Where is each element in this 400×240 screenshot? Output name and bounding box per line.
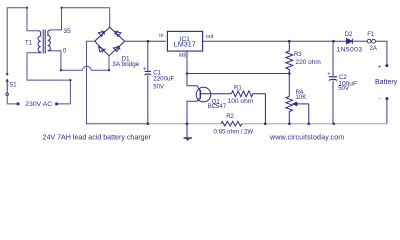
node battery minus [385, 97, 388, 100]
svg-text:0: 0 [63, 48, 67, 54]
svg-text:-: - [379, 97, 381, 103]
diode D1a upper-left [98, 31, 105, 37]
svg-text:+: + [327, 71, 330, 77]
svg-text:3A bridge: 3A bridge [112, 61, 139, 68]
diode D1b upper-right [114, 31, 121, 37]
resistor R3 220 ohm [286, 41, 293, 73]
wire primary top lead [7, 8, 38, 75]
wire plug to primary bottom [27, 53, 70, 104]
svg-text:24V 7AH lead acid battery char: 24V 7AH lead acid battery charger [43, 133, 152, 141]
node 0-junction [60, 69, 62, 71]
svg-text:R2: R2 [226, 114, 234, 120]
capacitor C2 [332, 41, 334, 76]
ground symbol [184, 124, 192, 141]
wire adj to R3/R4 junction [187, 51, 289, 74]
node bottom vertex junction [108, 69, 110, 71]
wire adj down to Q1 collector [187, 74, 198, 86]
R4 wiper arrow [293, 102, 309, 124]
svg-text:220 ohm: 220 ohm [296, 59, 321, 66]
plug pin right [55, 103, 58, 106]
wire fuse to battery plus [376, 41, 387, 65]
svg-text:10K: 10K [296, 95, 307, 101]
node wiper bottom [308, 122, 311, 125]
op-amp IC1 LM317 regulator box [166, 30, 203, 51]
svg-text:+: + [378, 64, 382, 70]
node corner [60, 7, 62, 9]
svg-text:BC547: BC547 [208, 104, 227, 110]
transformer T1 [38, 30, 51, 54]
wire secondary bottom lead (0 tap) [52, 51, 61, 70]
resistor R1 100 ohm [231, 91, 265, 124]
node battery plus [385, 64, 388, 67]
node C1 bottom [147, 122, 150, 125]
svg-text:1N5003: 1N5003 [337, 46, 363, 53]
node R3/R4 junction [288, 72, 291, 75]
node C2 top [332, 40, 335, 43]
node C2 bottom [332, 122, 335, 125]
node R1 bottom [264, 122, 267, 125]
svg-text:adj: adj [179, 52, 186, 58]
svg-text:50V: 50V [153, 84, 164, 90]
svg-text:2200uF: 2200uF [153, 75, 174, 82]
svg-text:F1: F1 [367, 32, 375, 38]
svg-text:www.circuitstoday.com: www.circuitstoday.com [269, 133, 344, 141]
transistor Q1 [196, 86, 231, 102]
node emitter/ground junction [186, 122, 189, 125]
svg-text:S1: S1 [9, 82, 17, 88]
resistor R2 0.85 ohm [221, 121, 242, 126]
node corner [69, 79, 71, 81]
svg-text:D2: D2 [345, 32, 353, 38]
svg-text:230V AC: 230V AC [25, 101, 52, 108]
node R4 bottom [288, 122, 291, 125]
switch S1 [6, 78, 9, 95]
wire 0 tap to bridge bottom vertex with hop [61, 56, 109, 70]
svg-text:50V: 50V [338, 86, 349, 92]
wire Q1 emitter to ground rail [187, 101, 197, 123]
svg-text:100 ohm: 100 ohm [228, 98, 254, 105]
node C1 top junction [147, 40, 150, 43]
wire battery minus to ground rail [386, 99, 388, 124]
node corner top-left [26, 7, 28, 9]
svg-text:LM317: LM317 [174, 40, 196, 49]
svg-text:Battery: Battery [375, 79, 398, 86]
wire S1 to plug [7, 96, 16, 104]
wire in rail: bridge + to IC1 [125, 40, 167, 42]
plug pin left [17, 103, 20, 106]
svg-text:R3: R3 [294, 52, 302, 58]
svg-text:0.85 ohm / 2W: 0.85 ohm / 2W [214, 129, 254, 136]
svg-text:R1: R1 [234, 85, 242, 91]
wire out rail [203, 40, 347, 42]
diode D1c lower-left [99, 47, 106, 53]
svg-text:out: out [206, 34, 214, 40]
svg-text:35: 35 [64, 28, 72, 35]
wire D2 to fuse [352, 40, 367, 42]
fuse F1 [367, 39, 375, 43]
node S1 top terminal [6, 73, 8, 75]
wire bridge left vertex to ground rail [87, 41, 148, 124]
resistor R4 10K preset [286, 74, 293, 124]
svg-text:T1: T1 [25, 40, 33, 46]
capacitor C1 [147, 41, 149, 71]
node adj junction [186, 72, 189, 75]
bridge D1 outline [95, 27, 125, 56]
wire secondary top lead to top rail [52, 8, 110, 30]
svg-text:in: in [159, 33, 163, 39]
svg-text:+: + [143, 66, 147, 72]
svg-text:2A: 2A [370, 46, 377, 52]
node R3 top [288, 40, 291, 43]
ground rail [148, 123, 387, 125]
diode D2 [347, 39, 353, 44]
diode D1d lower-right [113, 46, 120, 52]
